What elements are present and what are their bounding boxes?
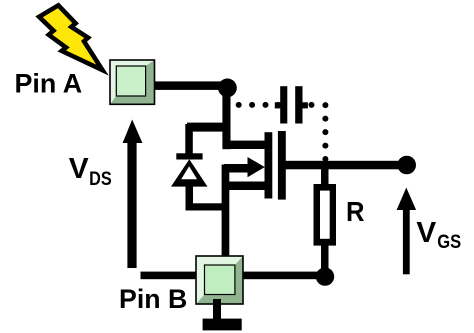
wire: drain vertical bbox=[222, 85, 230, 149]
svg-text:Pin A: Pin A bbox=[15, 69, 83, 99]
ground bbox=[203, 319, 242, 331]
arrow VGS bbox=[397, 188, 417, 275]
transistor M1 gate bar bbox=[278, 131, 286, 200]
wire: diode cathode lead bbox=[185, 124, 193, 155]
transistor M1 channel bar bbox=[265, 132, 273, 198]
node: drain junction bbox=[218, 79, 237, 98]
wire: bulk arrow shaft bbox=[224, 164, 251, 173]
diode D1 cathode bar bbox=[176, 153, 202, 159]
svg-text:V: V bbox=[416, 217, 436, 249]
lightning bolt ESD strike bbox=[39, 5, 102, 70]
capacitor C parasitic plates bbox=[275, 86, 308, 123]
wire: ground stub bbox=[213, 299, 221, 319]
wire: gate rail to VGS terminal bbox=[284, 161, 403, 170]
dotted wire: node to capacitor bbox=[236, 102, 281, 108]
wire: diode anode lead bbox=[186, 185, 194, 211]
transistor M1 bulk arrowhead bbox=[248, 157, 265, 177]
wire: diode top branch bbox=[187, 123, 231, 132]
node: gate-resistor junction bbox=[316, 267, 334, 285]
wire: resistor top lead bbox=[321, 168, 329, 186]
dotted wire: capacitor to gate node bbox=[309, 102, 329, 162]
pad Pin B bbox=[196, 256, 243, 304]
wire: bottom rail Pin B bbox=[141, 272, 326, 280]
svg-text:GS: GS bbox=[437, 232, 461, 253]
wire: source vertical to Pin B bbox=[222, 165, 230, 258]
resistor R body bbox=[314, 184, 337, 246]
wire: drain lead to MOSFET bbox=[224, 141, 265, 149]
wire: resistor bottom lead bbox=[321, 245, 329, 273]
svg-text:V: V bbox=[69, 153, 90, 185]
wire: Pin A to drain node bbox=[150, 81, 228, 90]
diode D1 triangle bbox=[171, 159, 208, 186]
wire: source lead bbox=[226, 182, 265, 191]
pad Pin A bbox=[110, 60, 155, 104]
node: VGS terminal bbox=[397, 156, 416, 175]
wire: anode to source rail bbox=[186, 203, 230, 210]
label VDS bbox=[69, 153, 112, 190]
svg-text:R: R bbox=[346, 196, 365, 227]
svg-text:Pin B: Pin B bbox=[119, 284, 187, 314]
arrow VDS bbox=[123, 120, 143, 269]
label VGS bbox=[416, 217, 461, 253]
svg-text:DS: DS bbox=[89, 169, 112, 190]
